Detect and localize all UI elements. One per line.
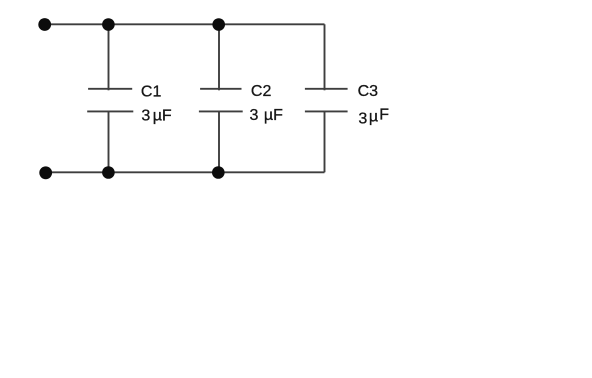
capacitor C2 [200,88,241,90]
svg-text:C3: C3 [358,83,379,100]
svg-text:µ: µ [369,108,378,125]
node terminal bottom-left [39,166,52,179]
node junction top C1 [102,18,115,31]
svg-text:µF: µF [153,107,172,124]
svg-text:3: 3 [141,107,150,124]
wire C1 bottom lead [108,111,110,172]
svg-text:3: 3 [358,110,367,127]
svg-text:3: 3 [250,107,259,124]
wire C3 top lead [324,24,326,90]
node junction bottom C2 [212,166,225,179]
wire C1 top lead [108,24,110,90]
capacitor C1 [88,88,132,90]
node junction top C2 [212,18,225,31]
wire C2 top lead [218,24,220,90]
capacitor C3 [305,88,348,90]
svg-text:µF: µF [264,107,283,124]
wire top rail [45,23,325,25]
svg-text:C1: C1 [141,83,162,100]
node junction bottom C1 [102,166,115,179]
node terminal top-left [38,18,51,31]
wire C3 bottom lead [324,111,326,172]
wire bottom rail [46,171,325,173]
svg-text:F: F [379,107,389,124]
wire C2 bottom lead [218,111,220,172]
svg-text:C2: C2 [251,83,272,100]
